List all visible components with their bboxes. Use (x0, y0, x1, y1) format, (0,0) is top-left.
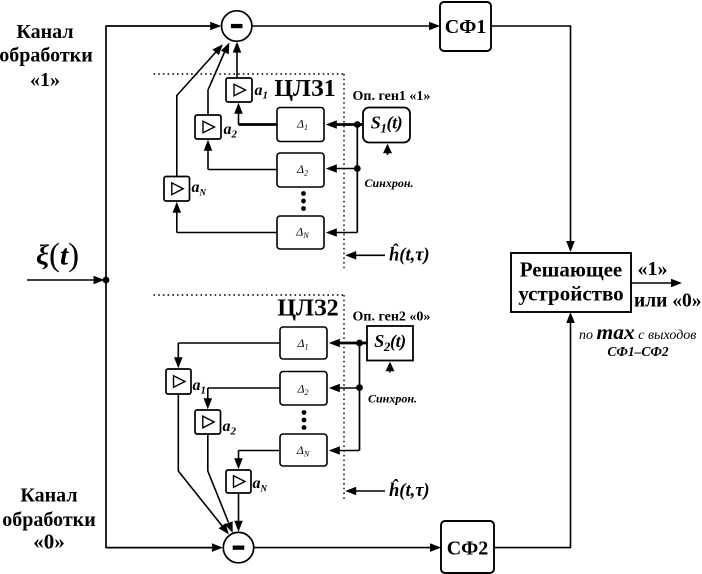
label SF1-SF2 (607, 344, 668, 359)
svg-text:Синхрон.: Синхрон. (365, 176, 414, 190)
label channel 1 line3 (30, 69, 60, 91)
junction input node (103, 277, 110, 284)
wire DN to aN (173, 202, 278, 233)
label SF1 (445, 16, 487, 38)
svg-text:S1(t): S1(t) (371, 113, 403, 136)
wire DN to aN (ch2) (234, 451, 280, 470)
label channel 0 line3 (33, 530, 65, 554)
wire decision output (631, 279, 682, 288)
wire input xi(t) (27, 276, 105, 285)
label DN (ch2) (296, 443, 310, 459)
wire S2 bus to DN (ch2) (329, 446, 360, 455)
block S1(t) reference generator (363, 108, 410, 143)
label D2 (ch2) (296, 382, 308, 398)
wire D1 to a1 (234, 103, 277, 125)
block SF1 (matched filter 1) (440, 2, 491, 51)
wire main input vertical bus (105, 25, 107, 548)
svg-text:СФ1–СФ2: СФ1–СФ2 (607, 344, 668, 359)
label aN (ch1) (192, 179, 207, 198)
wire D1 to a1 (ch2) (174, 343, 280, 368)
wire bottom horizontal to subtractor (106, 543, 223, 552)
svg-text:ξ(t): ξ(t) (36, 238, 79, 274)
dotted boundary TsLZ2 top (154, 294, 345, 296)
amplifier a2 (ch2) (195, 410, 221, 434)
wire S2 to D1 (ch2) (329, 339, 367, 348)
amplifier aN (ch1) (164, 177, 190, 202)
wire S1 vertical bus (356, 125, 358, 233)
delay block D2 (ch2) (280, 372, 327, 406)
subtractor node (minus) top (222, 11, 252, 41)
label TsLZ2 (277, 296, 338, 322)
wire aN to subtractor (ch2) (234, 493, 243, 532)
svg-text:Решающее: Решающее (520, 258, 623, 282)
svg-text:Канал: Канал (16, 21, 73, 43)
wire a2 to subtractor (208, 43, 229, 116)
dotted boundary TsLZ1 top (154, 73, 345, 75)
svg-text:ЦЛЗ2: ЦЛЗ2 (277, 296, 338, 322)
label sinhron 1 (365, 176, 414, 190)
label channel 1 line1 (16, 21, 73, 43)
label S1(t) (371, 113, 403, 136)
label op gen2 (353, 310, 431, 325)
label decision device line2 (518, 282, 623, 306)
amplifier a1 (ch2) (166, 369, 191, 394)
delay block DN (ch2) (280, 434, 327, 466)
wire S2 bus to D2 (ch2) (329, 384, 360, 393)
svg-text:ĥ(t,τ): ĥ(t,τ) (389, 479, 430, 501)
label a1 (ch1) (255, 82, 269, 102)
svg-text:Оп. ген2 «0»: Оп. ген2 «0» (353, 310, 431, 325)
junction S1 node A (354, 121, 361, 128)
wire h(t,tau) 1 (345, 251, 385, 260)
label channel 1 line2 (0, 45, 93, 67)
svg-text:обработки: обработки (0, 45, 93, 67)
junction S2 node B (356, 384, 363, 391)
wire D2 to a2 (204, 140, 277, 170)
svg-text:«1»: «1» (30, 69, 60, 91)
svg-text:Синхрон.: Синхрон. (368, 392, 417, 406)
label a2 (ch1) (224, 121, 238, 141)
wire SF2 to decision device (494, 312, 575, 548)
wire S1 bus to D2 (326, 164, 358, 173)
label h(t,tau) 2 (389, 479, 430, 501)
junction S1 node B (354, 165, 361, 172)
sync arrow into S1 (383, 144, 392, 155)
wire SF1 to decision device (491, 26, 575, 252)
delay block D1 (ch1) (277, 108, 324, 142)
wire S2 vertical bus (359, 343, 361, 451)
label D2 (ch1) (296, 162, 308, 178)
wire a2 to subtractor (ch2) (208, 434, 233, 533)
label output 1 (638, 258, 668, 280)
amplifier aN (ch2) (226, 470, 251, 493)
label channel 0 line2 (2, 509, 95, 531)
dotted boundary TsLZ2 right (343, 295, 345, 500)
block S2(t) reference generator (367, 326, 413, 361)
amplifier a1 (ch1) (226, 78, 252, 102)
ellipsis dots (ch2) (302, 410, 307, 430)
svg-text:устройство: устройство (518, 282, 623, 306)
svg-text:или «0»: или «0» (634, 291, 702, 312)
wire subtractor to SF1 (252, 22, 440, 31)
label aN (ch2) (253, 475, 268, 494)
label DN (ch1) (295, 225, 309, 241)
block SF2 (matched filter 2) (441, 521, 494, 573)
label sinhron 2 (368, 392, 417, 406)
label D1 (ch2) (296, 336, 308, 352)
label a1 (ch2) (193, 377, 207, 397)
label SF2 (447, 538, 489, 560)
label S2(t) (374, 331, 406, 354)
svg-text:обработки: обработки (2, 509, 95, 531)
label a2 (ch2) (223, 418, 237, 438)
svg-text:СФ1: СФ1 (445, 16, 487, 38)
ellipsis dots (ch1) (301, 191, 306, 211)
label decision device line1 (520, 258, 623, 282)
svg-text:«0»: «0» (33, 530, 65, 554)
label op gen1 (353, 89, 431, 104)
amplifier a2 (ch1) (195, 115, 221, 139)
svg-text:СФ2: СФ2 (447, 538, 489, 560)
block decision device (511, 253, 631, 312)
wire top horizontal to subtractor (106, 22, 221, 31)
svg-text:S2(t): S2(t) (374, 331, 406, 354)
wire h(t,tau) 2 (345, 487, 385, 496)
label D1 (ch1) (296, 117, 308, 133)
wire a1 to subtractor (ch2) (178, 394, 229, 534)
label output or 0 (634, 291, 702, 312)
label h(t,tau) 1 (389, 244, 430, 266)
label po max (579, 320, 696, 344)
svg-text:Канал: Канал (20, 485, 77, 507)
wire S1 to D1 (326, 120, 363, 129)
label channel 0 line1 (20, 485, 77, 507)
delay block DN (ch1) (277, 216, 324, 249)
label xi(t) input signal (36, 238, 79, 274)
wire aN to subtractor (177, 44, 223, 176)
junction S2 node A (356, 340, 363, 347)
label TsLZ1 (274, 76, 335, 102)
wire D2 to a2 (ch2) (204, 388, 281, 409)
svg-text:ĥ(t,τ): ĥ(t,τ) (389, 244, 430, 266)
wire S1 bus to DN (326, 228, 358, 237)
wire a1 to subtractor (233, 42, 242, 78)
delay block D2 (ch1) (277, 153, 324, 187)
svg-text:«1»: «1» (638, 258, 668, 280)
subtractor node (minus) bottom (223, 532, 253, 562)
svg-text:ЦЛЗ1: ЦЛЗ1 (274, 76, 335, 102)
delay block D1 (ch2) (280, 327, 327, 359)
sync arrow into S2 (386, 362, 395, 373)
dotted boundary TsLZ1 right (343, 74, 345, 269)
svg-text:Оп. ген1 «1»: Оп. ген1 «1» (353, 89, 431, 104)
wire subtractor to SF2 (254, 543, 441, 552)
